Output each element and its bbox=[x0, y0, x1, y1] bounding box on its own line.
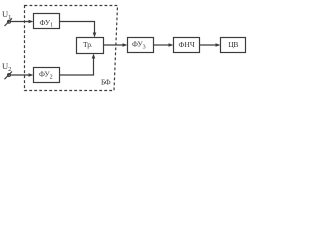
arrowhead into ФУ3 bbox=[123, 43, 128, 47]
terminal U2 bbox=[8, 74, 11, 77]
wire Тр to ФУ3 bbox=[104, 44, 124, 46]
wire ФУ1 to Тр bbox=[60, 22, 95, 34]
arrowhead into ФНЧ bbox=[169, 43, 174, 47]
arrowhead into Тр top bbox=[93, 33, 97, 38]
arrowhead into ФУ1 bbox=[29, 20, 34, 24]
block ФНЧ bbox=[174, 38, 200, 53]
wire U1 input bbox=[10, 21, 29, 23]
svg-text:БФ: БФ bbox=[101, 78, 111, 87]
wire ФУ3 to ФНЧ bbox=[154, 44, 170, 46]
block ФУ2 bbox=[34, 68, 60, 83]
terminal U1 bbox=[8, 20, 11, 23]
arrowhead into Тр bottom bbox=[92, 54, 96, 59]
arrowhead into ЦВ bbox=[216, 43, 221, 47]
wire ФНЧ to ЦВ bbox=[200, 44, 217, 46]
svg-text:ФНЧ: ФНЧ bbox=[179, 40, 195, 49]
wire ФУ2 to Тр bbox=[60, 58, 94, 76]
block ФУ1 bbox=[34, 14, 60, 29]
svg-text:ЦВ: ЦВ bbox=[228, 40, 238, 49]
block ФУ3 bbox=[128, 38, 154, 53]
block Тр bbox=[77, 38, 104, 54]
arrowhead into ФУ2 bbox=[29, 73, 34, 77]
dashed box БФ outline bbox=[25, 6, 118, 91]
wire U2 input bbox=[10, 74, 29, 76]
block ЦВ bbox=[221, 38, 246, 53]
